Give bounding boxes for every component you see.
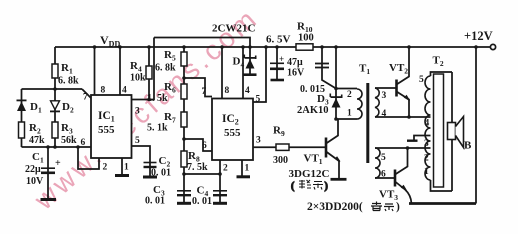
svg-text:6. 8k: 6. 8k <box>155 63 176 74</box>
node +12V terminal <box>490 44 495 49</box>
svg-text:10k: 10k <box>130 73 146 84</box>
capacitor C3 <box>177 191 191 195</box>
wire T1 pin6 to VT3 base <box>375 177 395 179</box>
wire VT3 collector <box>395 148 408 175</box>
wire C4 stem <box>219 174 221 203</box>
svg-text:4: 4 <box>122 86 127 96</box>
svg-text:10V: 10V <box>26 176 44 187</box>
svg-text:): ) <box>325 181 328 192</box>
svg-text:3: 3 <box>382 91 387 101</box>
zener D4 <box>244 55 257 69</box>
capacitor C2 <box>144 163 157 168</box>
wire IC2 pin8 <box>221 47 223 99</box>
T1 secondary B winding <box>375 148 380 178</box>
svg-text:4: 4 <box>425 119 430 129</box>
ground VT1 emitter <box>331 178 347 181</box>
wire IC1 pin2 loop <box>78 147 99 169</box>
wire R1 drop <box>54 47 56 89</box>
svg-text:0. 01: 0. 01 <box>145 196 165 207</box>
wire C3 stem <box>183 174 185 203</box>
svg-text:8: 8 <box>225 86 230 96</box>
resistor R1 <box>52 64 58 78</box>
zener D3 <box>330 94 343 108</box>
wire D3 T1 column <box>335 47 337 119</box>
wire R5-R8 column <box>183 47 185 174</box>
wire IC2 pin3 to VT1 base <box>253 146 326 148</box>
transistor VT2 base bar <box>395 80 398 97</box>
hanzi green dot label (lu dian) <box>291 180 328 192</box>
svg-text:5. 1k: 5. 1k <box>147 123 168 134</box>
wire D2 column <box>54 89 56 147</box>
ground C1 <box>41 198 57 201</box>
transistor VT1 base bar <box>325 138 328 158</box>
svg-text:5: 5 <box>381 153 386 163</box>
wire bottom heavy rail <box>409 202 476 205</box>
resistor R3 <box>52 122 58 138</box>
wire node row y89 <box>22 88 83 90</box>
svg-text:555: 555 <box>98 124 115 136</box>
resistor R10 <box>296 44 313 50</box>
wire node row y147 to IC1 pin6 <box>22 146 92 148</box>
resistor R8 <box>181 151 187 167</box>
wire speaker line upper <box>451 72 453 123</box>
svg-text:7: 7 <box>202 87 207 97</box>
T1 secondary A winding <box>375 88 379 117</box>
svg-text:300: 300 <box>273 155 288 166</box>
resistor R2 <box>19 122 25 138</box>
svg-text:2CW21C: 2CW21C <box>212 23 255 35</box>
wire T1 pin4 to T2 pin4 <box>375 116 431 118</box>
wire top from IC1 pin3 to D4 <box>154 38 250 48</box>
T1 core <box>366 83 369 163</box>
transistor VT3 emitter arrow <box>402 186 407 191</box>
wire speaker line lower <box>451 140 453 192</box>
capacitor 0.015 <box>315 64 329 68</box>
svg-text:47k: 47k <box>29 135 45 146</box>
wire C5 47u stem <box>276 47 278 80</box>
resistor R4 <box>146 66 152 79</box>
svg-text:+: + <box>55 158 61 169</box>
svg-text:2AK10: 2AK10 <box>297 105 329 116</box>
wire IC2 pin2 down <box>219 160 221 174</box>
capacitor C1 electrolytic <box>41 168 55 173</box>
svg-text:7. 5k: 7. 5k <box>187 162 208 173</box>
svg-text:22μ: 22μ <box>25 164 41 175</box>
svg-text:1: 1 <box>347 109 352 119</box>
wire T1 pin2 <box>336 88 357 90</box>
resistor R7 <box>181 112 187 127</box>
svg-text:6. 5V: 6. 5V <box>266 34 291 46</box>
svg-text:555: 555 <box>224 127 241 139</box>
svg-text:4: 4 <box>382 109 387 119</box>
resistor R5 <box>181 52 187 66</box>
svg-text:6: 6 <box>381 170 386 180</box>
ground T2 pin3 <box>407 139 418 141</box>
wire IC2 pin4 <box>242 47 244 99</box>
svg-text:3: 3 <box>256 136 261 146</box>
svg-text:+: + <box>279 54 284 64</box>
wire D4 column <box>249 47 251 74</box>
IC1 555 box <box>91 95 132 158</box>
diode D2 <box>50 101 60 113</box>
transistor VT2 emitter arrow <box>405 96 410 101</box>
svg-text:+12V: +12V <box>464 29 493 43</box>
wire right side riser <box>475 47 477 204</box>
wire VT2 collector <box>397 47 410 85</box>
svg-text:2: 2 <box>424 154 429 164</box>
svg-text:1: 1 <box>424 167 429 177</box>
wire VT2 emitter <box>397 92 410 118</box>
wire C3 C4 row <box>184 173 220 175</box>
T2 winding <box>425 76 431 180</box>
ground IC1 pin1 <box>115 174 129 177</box>
ground C3 <box>177 202 191 205</box>
ground D4 <box>244 73 257 76</box>
svg-text:3: 3 <box>424 139 429 149</box>
ground C4 <box>213 202 227 205</box>
wire IC1 pin5 to C2 <box>132 146 151 177</box>
hanzi yellow dot label (huang dian) <box>371 202 394 212</box>
wire C1 stem <box>47 147 49 199</box>
wire IC2 pin7 step <box>184 78 212 97</box>
svg-text:2: 2 <box>223 164 228 174</box>
resistor R9 <box>276 144 289 150</box>
wire IC1 pin1 down <box>121 158 123 175</box>
svg-text:8: 8 <box>101 86 106 96</box>
wire T1 pin3 to VT2 base <box>375 87 397 89</box>
svg-text:2: 2 <box>103 163 108 173</box>
diode D1 <box>17 100 27 112</box>
svg-text:7: 7 <box>83 93 88 103</box>
svg-text:6. 8k: 6. 8k <box>58 76 79 87</box>
wire IC1 pin8 <box>94 47 96 95</box>
svg-text:1: 1 <box>245 164 250 174</box>
svg-text:16V: 16V <box>287 68 305 79</box>
svg-text:1: 1 <box>124 163 129 173</box>
svg-text:2×3DD200(: 2×3DD200( <box>307 201 363 213</box>
watermark <box>28 4 262 216</box>
svg-text:6: 6 <box>202 141 207 151</box>
svg-text:3: 3 <box>135 107 140 117</box>
wire pin7 step IC1 <box>82 89 91 98</box>
resistor R6 <box>181 84 187 99</box>
transistor VT3 base bar <box>394 170 397 187</box>
svg-text:5: 5 <box>256 95 261 105</box>
wire VT1 emitter <box>326 152 339 179</box>
capacitor 47u electrolytic <box>270 63 284 69</box>
speaker B <box>448 123 456 140</box>
T1 primary winding <box>357 89 362 119</box>
wire R4 branch <box>148 47 150 100</box>
wire IC2 pin5 up <box>253 47 266 102</box>
wire T1 pin5 to T2 pin2 <box>375 147 431 149</box>
wire C6 0.015 stem <box>322 47 336 89</box>
wire IC2 pin6 step <box>184 139 212 151</box>
wire T2 top edge <box>431 72 453 76</box>
transformer T1 windings <box>357 88 380 178</box>
svg-text:): ) <box>396 201 400 213</box>
wire VT1 collector <box>326 119 338 144</box>
ground IC2 pin1 <box>237 175 251 178</box>
T2 core rectangle <box>434 74 444 187</box>
wire VT3 emitter curve <box>395 182 412 204</box>
wire T2 pin1 bottom <box>431 180 453 191</box>
svg-text:47μ: 47μ <box>287 57 303 68</box>
svg-text:1. 5k: 1. 5k <box>147 93 168 104</box>
svg-text:0. 01: 0. 01 <box>192 196 212 207</box>
wire IC1 pin3 up <box>132 38 155 100</box>
ground 47u <box>271 79 285 82</box>
wire VDD rail <box>55 46 490 48</box>
svg-text:5: 5 <box>419 75 424 85</box>
IC2 555 box <box>212 99 253 161</box>
wire IC2 pin1 down <box>241 160 243 177</box>
wire T1 pin1 <box>336 118 357 120</box>
transistor VT1 emitter arrow <box>336 157 341 162</box>
wire IC1 pin4 <box>119 47 121 95</box>
svg-text:2: 2 <box>347 90 352 100</box>
svg-text:56k: 56k <box>61 135 77 146</box>
svg-text:B: B <box>464 140 472 152</box>
wire D1 column <box>21 89 23 147</box>
svg-text:5: 5 <box>135 136 140 146</box>
wire T2 pin3 ground tap <box>414 136 431 141</box>
svg-text:100: 100 <box>298 33 314 44</box>
ground C2 <box>143 176 157 179</box>
svg-text:0. 01: 0. 01 <box>151 168 171 179</box>
svg-text:6: 6 <box>81 138 86 148</box>
svg-text:4: 4 <box>245 86 250 96</box>
svg-text:3DG12C: 3DG12C <box>289 168 330 180</box>
capacitor C4 <box>213 191 227 195</box>
